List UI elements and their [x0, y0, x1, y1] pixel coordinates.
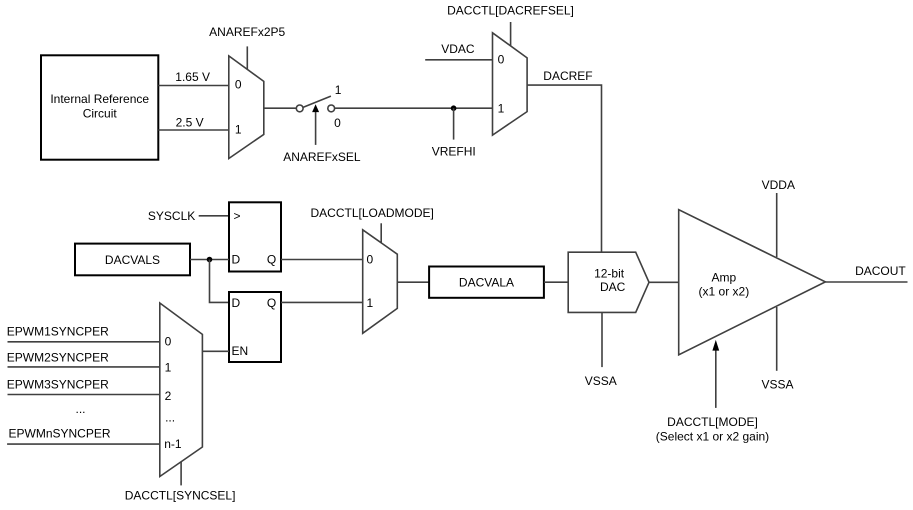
svg-text:>: > — [234, 209, 241, 223]
flip-flop FF1 — [229, 202, 281, 271]
svg-text:ANAREFx2P5: ANAREFx2P5 — [209, 25, 285, 39]
svg-text:2: 2 — [165, 389, 172, 403]
wire EPWM3SYNCPER — [7, 377, 160, 394]
wire DAC to Amp — [649, 281, 679, 283]
wire 1.65 V — [158, 70, 229, 86]
svg-text:DACREF: DACREF — [543, 69, 592, 83]
svg-text:2.5 V: 2.5 V — [176, 115, 204, 129]
svg-text:0: 0 — [334, 116, 341, 130]
wire DACVALS to D inputs — [190, 257, 229, 303]
svg-text:VDDA: VDDA — [762, 178, 795, 192]
svg-text:1: 1 — [335, 83, 342, 97]
svg-text:DACCTL[LOADMODE]: DACCTL[LOADMODE] — [311, 206, 434, 220]
svg-text:1: 1 — [498, 102, 505, 116]
svg-text:...: ... — [75, 402, 85, 416]
wire Q1 to LOADMODE mux — [281, 259, 363, 261]
arrow DACCTL[MODE] — [656, 340, 769, 444]
svg-text:DACCTL[DACREFSEL]: DACCTL[DACREFSEL] — [447, 4, 574, 18]
block DACVALA — [429, 267, 544, 298]
wire EN from SYNCSEL mux to FF2 — [202, 350, 229, 352]
svg-text:VSSA: VSSA — [761, 377, 793, 391]
svg-text:VREFHI: VREFHI — [432, 144, 476, 158]
svg-text:Q: Q — [267, 296, 276, 310]
svg-text:VSSA: VSSA — [585, 374, 617, 388]
wire EPWM1SYNCPER — [7, 325, 160, 342]
wire VDAC — [425, 42, 492, 60]
wire DACREF — [527, 69, 601, 252]
svg-text:1.65 V: 1.65 V — [175, 70, 210, 84]
svg-text:DACCTL[MODE]: DACCTL[MODE] — [667, 415, 758, 429]
flip-flop FF2 — [229, 292, 281, 362]
mux DACCTL[SYNCSEL] — [125, 303, 236, 503]
svg-text:Amp: Amp — [711, 271, 736, 285]
svg-text:EPWM2SYNCPER: EPWM2SYNCPER — [7, 350, 109, 364]
wire 2.5 V — [158, 115, 229, 130]
switch ANAREFxSEL — [283, 83, 361, 164]
svg-text:VDAC: VDAC — [441, 42, 475, 56]
svg-text:Circuit: Circuit — [83, 107, 118, 121]
svg-text:DACOUT: DACOUT — [855, 264, 906, 278]
wire VSSA below DAC — [585, 312, 617, 388]
svg-text:DAC: DAC — [600, 280, 626, 294]
svg-text:1: 1 — [367, 296, 374, 310]
wire mux output to switch — [264, 107, 296, 109]
svg-text:SYSCLK: SYSCLK — [148, 209, 195, 223]
svg-text:DACCTL[SYNCSEL]: DACCTL[SYNCSEL] — [125, 489, 236, 503]
wire DACVALA to 12-bit DAC — [544, 281, 568, 283]
svg-text:(x1 or x2): (x1 or x2) — [699, 285, 750, 299]
svg-text:(Select x1 or x2 gain): (Select x1 or x2 gain) — [656, 430, 769, 444]
svg-text:ANAREFxSEL: ANAREFxSEL — [283, 150, 361, 164]
svg-text:EPWM1SYNCPER: EPWM1SYNCPER — [7, 325, 109, 339]
svg-text:0: 0 — [165, 334, 172, 348]
block DACVALS — [75, 244, 190, 276]
svg-text:Q: Q — [267, 253, 276, 267]
svg-text:1: 1 — [165, 360, 172, 374]
svg-text:...: ... — [165, 410, 175, 424]
wire DACOUT — [825, 264, 907, 282]
svg-text:EPWM3SYNCPER: EPWM3SYNCPER — [7, 377, 109, 391]
svg-text:Internal Reference: Internal Reference — [50, 92, 149, 106]
mux ANAREFx2P5 — [209, 25, 285, 159]
svg-text:DACVALS: DACVALS — [105, 253, 160, 267]
svg-text:EPWMnSYNCPER: EPWMnSYNCPER — [9, 426, 111, 440]
wire VDDA — [762, 178, 795, 257]
wire VSSA at Amp — [761, 307, 793, 391]
wire SYSCLK — [148, 209, 229, 223]
mux DACCTL[DACREFSEL] — [447, 4, 574, 136]
svg-text:0: 0 — [498, 53, 505, 67]
wire LOADMODE mux to DACVALA — [397, 281, 429, 283]
wire Q2 to LOADMODE mux — [281, 301, 363, 303]
wire VREFHI net — [335, 105, 493, 158]
svg-text:D: D — [232, 253, 241, 267]
block Internal Reference Circuit — [41, 55, 158, 159]
svg-text:12-bit: 12-bit — [594, 266, 625, 280]
mux DACCTL[LOADMODE] — [311, 206, 434, 333]
op-amp Amp — [679, 210, 826, 355]
svg-text:1: 1 — [235, 123, 242, 137]
12-bit DAC block — [568, 252, 649, 312]
svg-text:n-1: n-1 — [164, 437, 182, 451]
svg-text:0: 0 — [235, 78, 242, 92]
wire EPWMnSYNCPER — [7, 426, 160, 444]
wire EPWM2SYNCPER — [7, 350, 160, 367]
svg-text:EN: EN — [232, 344, 249, 358]
svg-text:DACVALA: DACVALA — [459, 276, 514, 290]
svg-text:D: D — [232, 296, 241, 310]
svg-text:0: 0 — [367, 252, 374, 266]
